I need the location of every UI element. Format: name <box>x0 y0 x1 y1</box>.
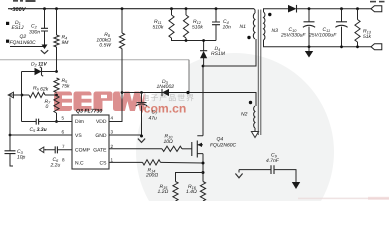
node bus-R12 <box>185 7 188 10</box>
resistor R11 <box>153 9 175 38</box>
capacitor C11 <box>308 9 348 47</box>
svg-text:1.4Ω: 1.4Ω <box>186 189 197 195</box>
transistor Q2 label <box>6 34 36 46</box>
wire VS column <box>9 98 11 151</box>
node out-C11 <box>340 7 343 10</box>
transformer core <box>258 10 261 136</box>
svg-text:10p: 10p <box>17 155 26 161</box>
node clamp-D4 <box>202 39 205 42</box>
node bot-R13 <box>356 45 359 48</box>
transformer N1 <box>240 9 256 39</box>
node R6 left <box>21 94 24 97</box>
svg-text:CS: CS <box>100 161 108 167</box>
node drain <box>202 65 205 68</box>
capacitor C3 <box>5 149 26 166</box>
node VDD-aux <box>121 91 124 94</box>
svg-text:0.5W: 0.5W <box>99 43 112 49</box>
diode D1 label <box>6 20 24 31</box>
node out-C10 <box>308 7 311 10</box>
node bus-C4 <box>215 7 218 10</box>
node bus-R11 <box>170 7 173 10</box>
resistor R6 <box>14 85 57 97</box>
svg-text:GND: GND <box>95 133 107 139</box>
wire aux row <box>122 93 256 107</box>
svg-text:D2 11V: D2 11V <box>31 62 47 69</box>
node bus-R4 <box>55 7 58 10</box>
svg-text:47u: 47u <box>149 116 158 122</box>
wire D2 anode down <box>21 72 23 122</box>
zener D2 <box>22 62 57 77</box>
svg-text:3: 3 <box>111 130 114 135</box>
ground hollow left of C9 <box>235 170 242 178</box>
watermark EEPW <box>54 92 145 112</box>
resistor R8 <box>96 9 124 93</box>
node bot-C10 <box>308 45 311 48</box>
svg-text:5: 5 <box>62 116 65 121</box>
resistor R10 on GATE <box>109 134 192 152</box>
svg-text:4: 4 <box>111 116 114 121</box>
top right cropped text <box>370 1 385 3</box>
wire top bus <box>8 8 254 10</box>
svg-text:2.2u: 2.2u <box>50 163 61 169</box>
connector terminal bottom <box>371 44 382 50</box>
wire output bottom row <box>309 46 372 48</box>
svg-text:2: 2 <box>111 144 114 149</box>
wire CS row <box>109 161 143 163</box>
svg-text:FQN1N60C: FQN1N60C <box>10 40 37 46</box>
node aux-C7 <box>140 91 143 94</box>
svg-text:8: 8 <box>62 158 65 163</box>
node GND <box>140 135 143 138</box>
svg-text:N.C: N.C <box>75 161 84 167</box>
node D2-R4 <box>55 70 58 73</box>
diode D3 <box>157 79 175 96</box>
capacitor C9 <box>239 153 296 183</box>
transformer N3 <box>264 9 310 47</box>
svg-text:10Ω: 10Ω <box>164 139 174 145</box>
svg-text:7: 7 <box>62 144 65 149</box>
capacitor C2 <box>29 9 48 47</box>
resistor R7 <box>45 96 60 122</box>
svg-text:Q3 FL7730: Q3 FL7730 <box>76 109 102 115</box>
node bot-C11 <box>340 45 343 48</box>
svg-text:N3: N3 <box>272 28 279 34</box>
wire VS row <box>10 134 72 136</box>
resistor R15 <box>158 182 179 202</box>
node clamp-R12 <box>185 39 188 42</box>
svg-text:R6 62k: R6 62k <box>33 85 49 92</box>
svg-text:510k: 510k <box>192 24 203 30</box>
resistor R5 <box>54 78 70 93</box>
connector terminal top <box>371 6 382 12</box>
svg-text:6: 6 <box>62 130 65 135</box>
node sense <box>202 171 205 174</box>
node out-R13 <box>356 7 359 10</box>
capacitor C5 <box>22 119 73 134</box>
svg-text:1N4002: 1N4002 <box>157 84 175 90</box>
svg-text:VS: VS <box>75 133 82 139</box>
resistor R13 <box>355 9 372 47</box>
svg-text:N2: N2 <box>241 112 248 118</box>
capacitor C4 <box>212 9 231 41</box>
svg-text:51k: 51k <box>363 34 372 40</box>
wire sense to R15 <box>176 173 204 182</box>
svg-text:ES1J: ES1J <box>12 25 24 31</box>
svg-text:25V/330uF: 25V/330uF <box>280 33 306 39</box>
node VS-C3 <box>9 134 12 137</box>
ground below C10 <box>305 47 313 58</box>
svg-text:.com.cn: .com.cn <box>140 101 186 115</box>
ground solid right of C9 <box>292 182 300 189</box>
node Dim <box>55 120 58 123</box>
node N1 phase dot <box>247 36 250 39</box>
node N2 phase dot <box>249 101 252 104</box>
resistor R4 <box>54 9 69 72</box>
svg-text:200Ω: 200Ω <box>145 173 158 179</box>
off-page arrow left <box>8 92 14 98</box>
transformer N2 <box>241 106 255 132</box>
node bus-R8 <box>121 7 124 10</box>
node CS-source <box>202 162 205 165</box>
svg-text:4.7nF: 4.7nF <box>266 158 280 164</box>
wire drain to N1 <box>203 39 256 66</box>
watermark circle <box>136 53 334 240</box>
ground arrow below N2 <box>251 132 258 138</box>
capacitor C10 <box>280 9 315 47</box>
node aux-patch <box>186 91 189 94</box>
svg-text:Dim: Dim <box>75 119 84 125</box>
svg-text:510k: 510k <box>153 24 164 30</box>
resistor R16 <box>186 182 206 202</box>
svg-text:25V/1000uF: 25V/1000uF <box>308 33 337 39</box>
svg-text:1: 1 <box>111 158 114 163</box>
svg-text:9M: 9M <box>62 40 70 46</box>
svg-text:C5 3.3u: C5 3.3u <box>30 127 47 134</box>
op-amp U1 : IC FL7730 box <box>62 109 114 170</box>
ground GND pin <box>138 139 145 143</box>
top cropped text <box>13 0 36 2</box>
transistor Q4 MOSFET <box>192 66 237 182</box>
svg-text:1.2Ω: 1.2Ω <box>158 189 169 195</box>
svg-text:COMP: COMP <box>75 147 91 153</box>
capacitor C6 <box>45 146 72 168</box>
svg-text:FQU2N60C: FQU2N60C <box>210 143 237 149</box>
svg-text:75k: 75k <box>62 84 71 90</box>
svg-text:GATE: GATE <box>93 147 107 153</box>
bottom-right faint strip <box>298 198 389 200</box>
capacitor C7 <box>136 93 158 137</box>
svg-text:VDD: VDD <box>96 119 107 125</box>
svg-text:RS1M: RS1M <box>211 51 226 57</box>
svg-text:-300V: -300V <box>11 7 27 13</box>
node N3 phase dot <box>268 13 271 16</box>
diode D5 output <box>288 5 372 13</box>
svg-text:0: 0 <box>46 104 49 110</box>
wire Q2 stub <box>10 46 45 48</box>
resistor R12 <box>183 9 203 38</box>
node bus-C2 <box>43 7 46 10</box>
svg-text:330n: 330n <box>29 29 40 35</box>
svg-text:N1: N1 <box>240 24 247 30</box>
ground arrow below C2 <box>41 45 48 54</box>
off-page arrow COMP <box>39 147 46 153</box>
node R5-R6 <box>55 94 58 97</box>
diode D4 <box>200 41 226 67</box>
wire VDD pin <box>109 93 122 122</box>
wire clamp bottom <box>172 38 217 41</box>
svg-text:10n: 10n <box>223 25 232 31</box>
white patch box <box>0 60 189 93</box>
resistor R14 <box>143 160 204 179</box>
wire GND pin <box>109 135 142 136</box>
